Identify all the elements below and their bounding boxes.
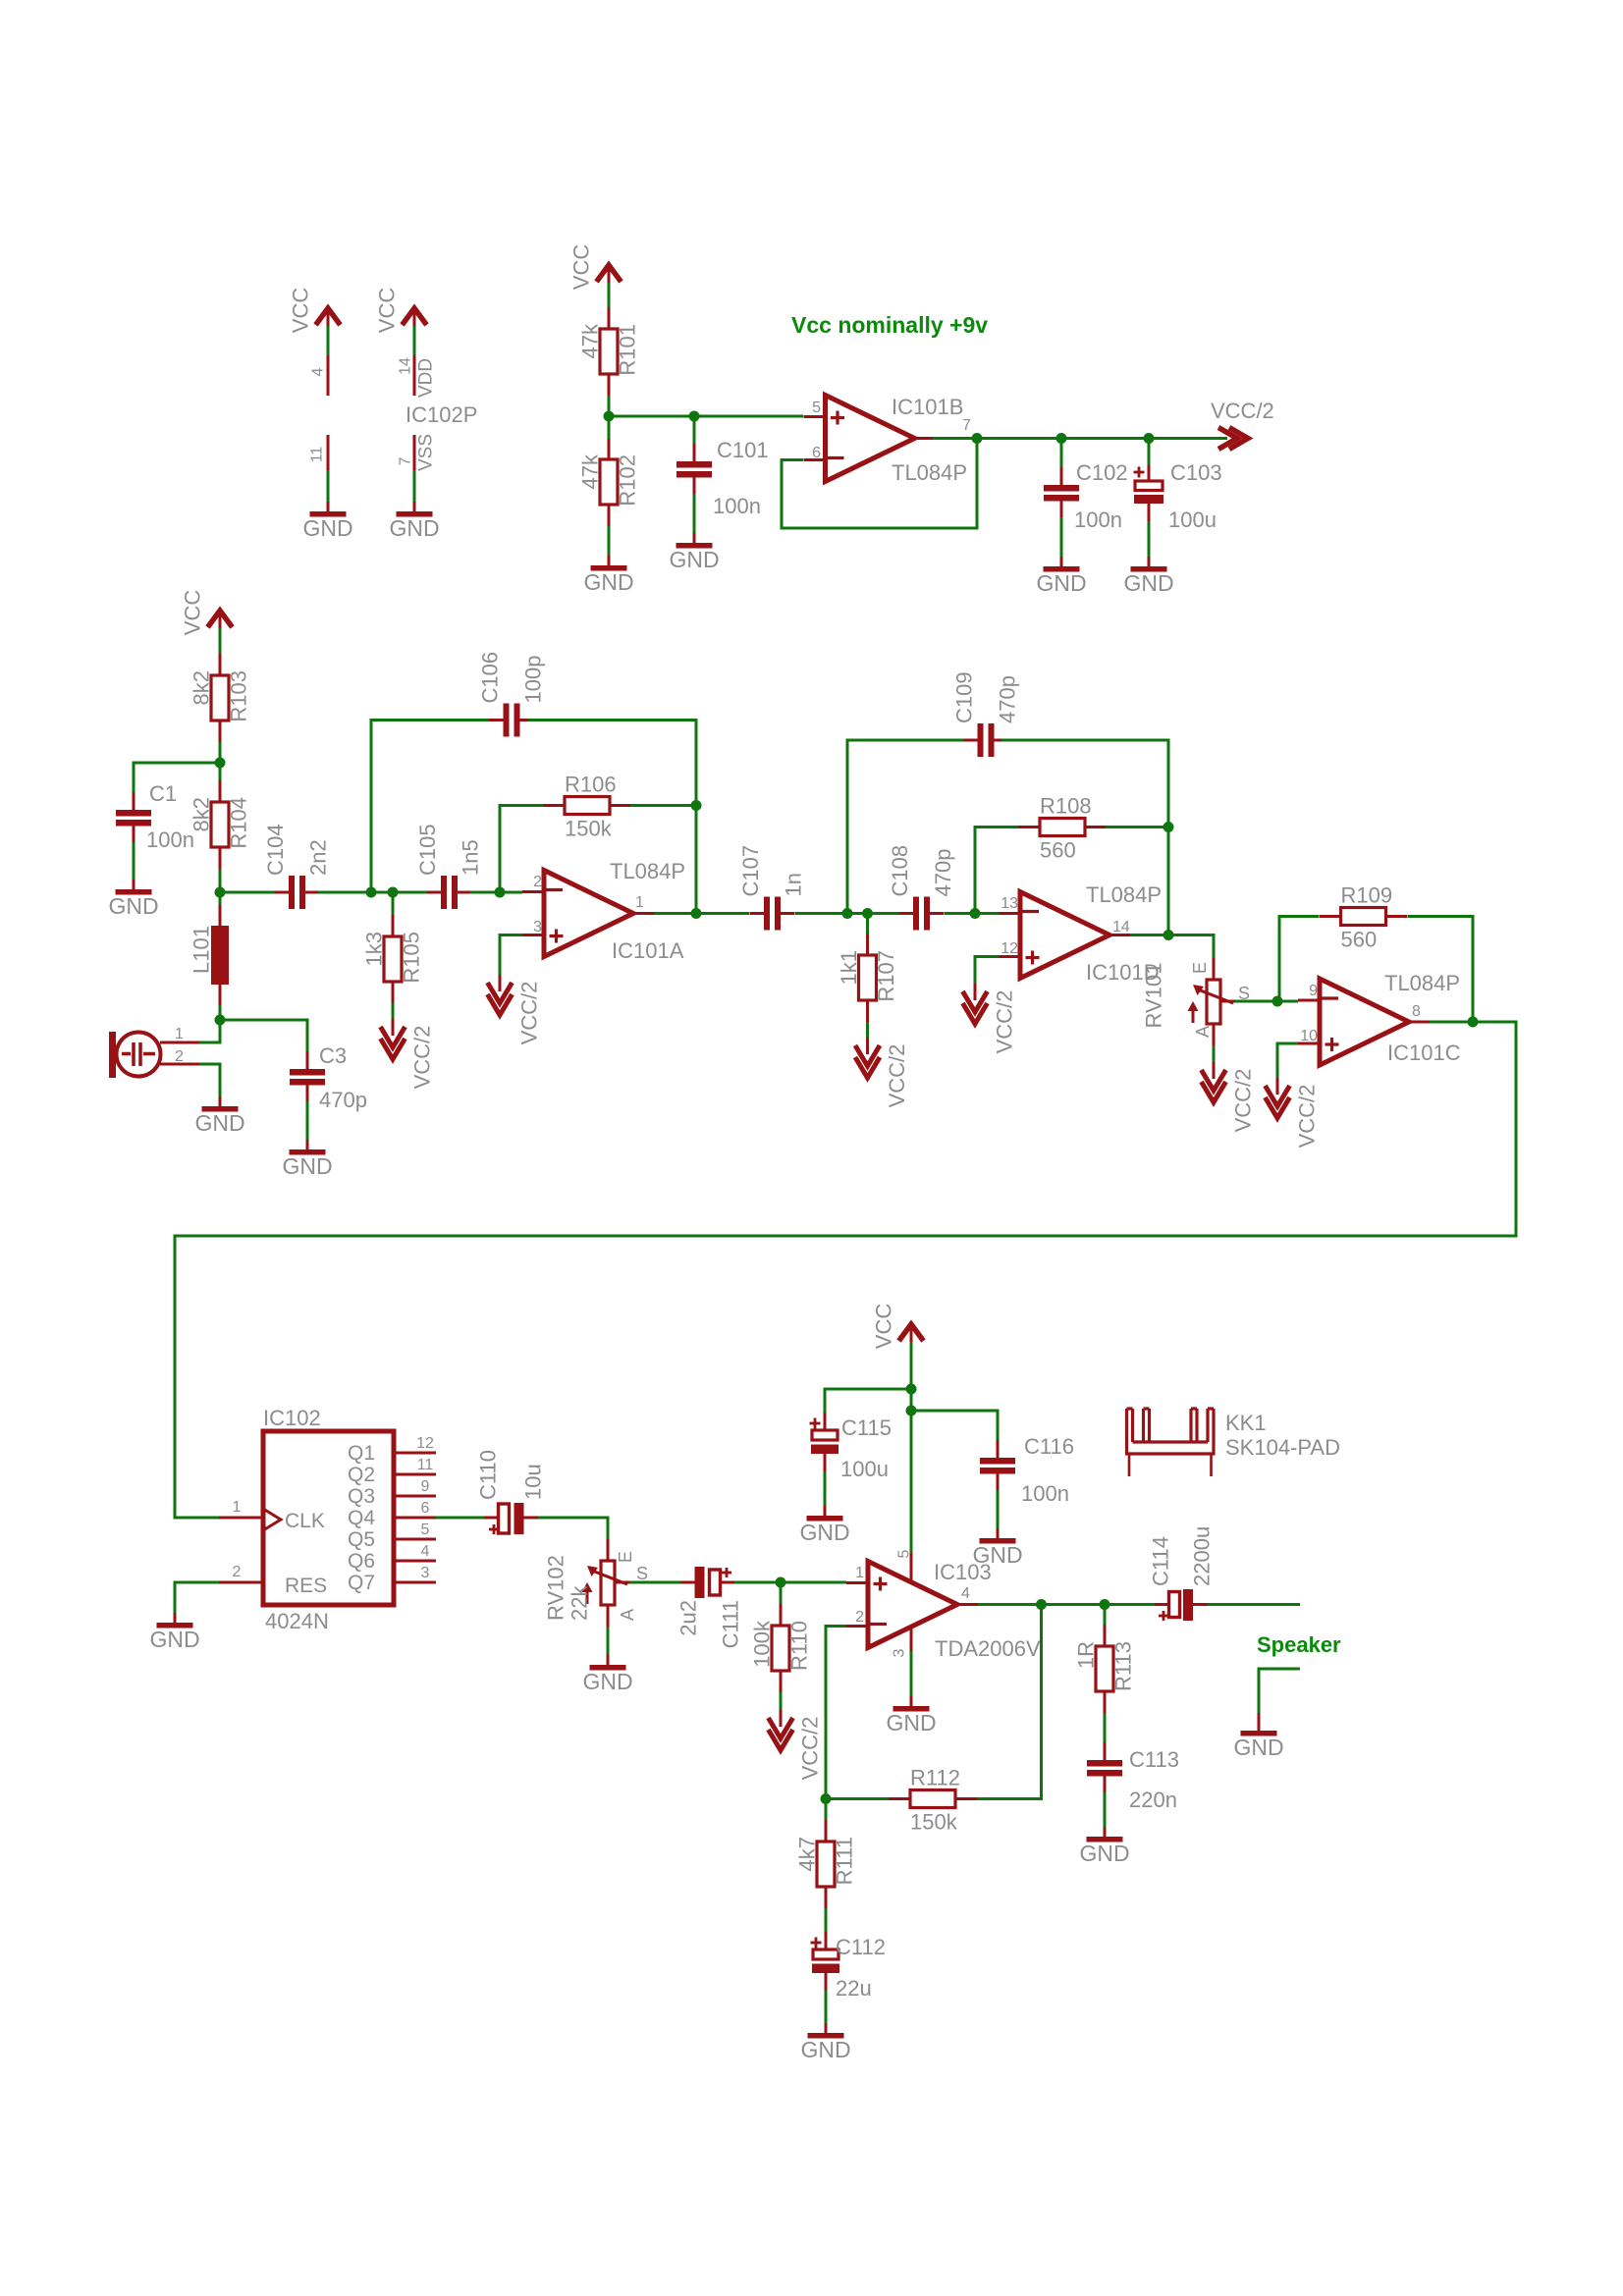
potentiometer RV102 22k	[601, 1561, 615, 1605]
svg-text:C115: C115	[841, 1415, 892, 1440]
svg-text:VCC/2: VCC/2	[885, 1044, 909, 1108]
resistor R105 1k3	[392, 892, 395, 915]
svg-text:VCC/2: VCC/2	[1231, 1069, 1256, 1133]
wire pin3 to VCC/2	[500, 935, 522, 984]
power pin IC101P GND (pin 11)	[327, 435, 330, 472]
pin 3 Q7	[394, 1581, 436, 1584]
op-amp IC103 TDA2006V	[868, 1562, 957, 1648]
svg-text:TL084P: TL084P	[892, 460, 967, 485]
capacitor C106 100p	[371, 721, 495, 893]
capacitor C107 1n	[764, 897, 770, 931]
svg-text:4: 4	[961, 1585, 970, 1602]
svg-text:R111: R111	[833, 1837, 857, 1885]
resistor R111 4k7	[825, 1799, 828, 1821]
svg-text:C113: C113	[1129, 1747, 1179, 1772]
resistor R108 560	[1040, 819, 1085, 836]
svg-text:C108: C108	[888, 845, 912, 897]
svg-text:VCC: VCC	[375, 288, 400, 334]
svg-text:Vcc nominally +9v: Vcc nominally +9v	[791, 312, 988, 338]
svg-text:VSS: VSS	[416, 434, 437, 471]
svg-text:3: 3	[892, 1648, 908, 1657]
svg-text:VCC/2: VCC/2	[410, 1026, 435, 1090]
resistor R106 150k	[565, 797, 610, 815]
capacitor C112 22u polarized	[813, 1949, 839, 1959]
output wire IC101B	[933, 437, 1227, 440]
svg-text:IC103: IC103	[934, 1560, 992, 1584]
svg-text:C111: C111	[719, 1600, 743, 1648]
svg-text:4: 4	[421, 1543, 430, 1560]
svg-text:Speaker: Speaker	[1257, 1632, 1341, 1657]
svg-text:S: S	[636, 1564, 648, 1583]
svg-text:4: 4	[310, 367, 327, 376]
op-amp IC101C TL084P	[1320, 979, 1409, 1065]
wire C114 to speaker stub	[1208, 1603, 1300, 1606]
node junction on IC101A output	[691, 908, 702, 919]
resistor R104 8k2	[219, 763, 222, 781]
resistor R109 560	[1341, 908, 1386, 926]
svg-text:GND: GND	[1079, 1841, 1129, 1866]
svg-text:GND: GND	[302, 515, 352, 541]
output wire IC103	[978, 1603, 1164, 1606]
svg-text:6: 6	[421, 1500, 430, 1517]
svg-text:C107: C107	[738, 845, 763, 897]
svg-text:VCC/2: VCC/2	[1211, 399, 1274, 423]
node junction R106/pin2	[495, 887, 506, 898]
svg-text:4k7: 4k7	[795, 1837, 820, 1871]
svg-text:TDA2006V: TDA2006V	[935, 1636, 1041, 1661]
svg-text:R101: R101	[616, 324, 640, 376]
ground under C1	[133, 880, 135, 889]
capacitor C3 470p	[290, 1069, 325, 1076]
svg-text:2n2: 2n2	[306, 839, 331, 876]
svg-text:GND: GND	[583, 569, 633, 595]
svg-text:C112: C112	[836, 1935, 886, 1959]
svg-text:13: 13	[1001, 895, 1018, 912]
power VCC arrow preamp	[208, 611, 233, 627]
wire RV102 A to ground	[607, 1627, 610, 1657]
output wire IC101A to C107	[654, 912, 749, 915]
node junction pin13/R108	[970, 908, 981, 919]
node junction C103	[1144, 433, 1155, 444]
svg-text:C109: C109	[952, 671, 977, 723]
wire R106 right to junction	[630, 804, 696, 807]
power pin IC102P VDD (pin 14)	[403, 308, 427, 325]
ground under C101	[693, 533, 696, 543]
wire VCC down to IC103 pin5	[910, 1411, 913, 1553]
svg-text:Q6: Q6	[348, 1550, 375, 1573]
svg-text:470p: 470p	[996, 675, 1020, 723]
wire pot A to VCC/2	[1213, 1045, 1216, 1070]
wire pin12 to VCC/2	[975, 957, 999, 992]
svg-text:GND: GND	[886, 1710, 936, 1735]
pin 9 Q3	[394, 1495, 436, 1498]
svg-text:C104: C104	[263, 824, 288, 876]
node junction C101 top	[689, 411, 700, 422]
resistor R101 47k	[600, 329, 618, 374]
capacitor C103 100u polarized	[1148, 439, 1151, 466]
wire C107 to C108	[795, 912, 905, 915]
resistor R110 100k	[780, 1582, 783, 1604]
ground under C3	[306, 1140, 309, 1149]
svg-text:3: 3	[533, 919, 542, 935]
wire C105 to op-amp pin2	[470, 891, 522, 894]
svg-text:22u: 22u	[836, 1976, 872, 2001]
output wire IC101C long run to IC102 CLK	[175, 1022, 1516, 1518]
svg-text:5: 5	[812, 400, 821, 416]
ground IC102P	[413, 502, 416, 511]
resistor R112 150k	[910, 1790, 955, 1808]
svg-text:9: 9	[1309, 983, 1318, 999]
svg-text:1: 1	[635, 894, 644, 911]
svg-text:100u: 100u	[1168, 507, 1217, 532]
svg-text:R105: R105	[400, 932, 424, 984]
ground under IC103 pin3	[910, 1696, 913, 1706]
node junction IC101C output/R109	[1468, 1017, 1479, 1028]
supply arrow VCC/2 under R105	[392, 1019, 395, 1036]
svg-text:C114: C114	[1149, 1536, 1173, 1586]
output wire IC101D to pot	[1130, 935, 1214, 959]
ground under mic	[219, 1096, 222, 1106]
svg-text:6: 6	[812, 445, 821, 461]
pin 1 CLK	[219, 1517, 263, 1520]
svg-text:C103: C103	[1170, 460, 1222, 485]
wire pin10 to VCC/2	[1277, 1043, 1298, 1086]
wire junction to C1	[134, 763, 220, 792]
ground under C112	[825, 2023, 828, 2033]
ground IC101P	[327, 502, 330, 511]
svg-text:5: 5	[421, 1522, 430, 1538]
svg-text:TL084P: TL084P	[610, 859, 685, 883]
wire junction to op-amp pin5	[609, 415, 803, 418]
svg-text:R103: R103	[227, 670, 251, 722]
svg-text:10u: 10u	[521, 1464, 546, 1500]
power pin IC102P VSS (pin 7)	[413, 435, 416, 472]
mic pin 1	[160, 1041, 199, 1044]
wire R106 right junction down to output	[695, 806, 698, 914]
potentiometer RV101	[1207, 980, 1220, 1024]
svg-text:Q2: Q2	[348, 1464, 375, 1486]
svg-text:8k2: 8k2	[189, 797, 214, 831]
svg-text:1: 1	[855, 1565, 864, 1581]
svg-text:VCC/2: VCC/2	[517, 982, 542, 1045]
svg-text:Q3: Q3	[348, 1485, 375, 1508]
svg-text:2: 2	[855, 1609, 864, 1626]
svg-text:TL084P: TL084P	[1384, 971, 1460, 995]
svg-text:GND: GND	[800, 2037, 850, 2062]
IC IC102 4024N box	[263, 1431, 394, 1605]
svg-text:C102: C102	[1076, 460, 1128, 485]
svg-text:R108: R108	[1040, 794, 1092, 819]
capacitor C110 10u polarized	[499, 1504, 510, 1533]
svg-text:VCC: VCC	[181, 590, 205, 636]
svg-text:RV102: RV102	[544, 1555, 568, 1621]
svg-text:2: 2	[533, 874, 542, 890]
svg-text:560: 560	[1341, 928, 1378, 952]
wire C110 to RV102	[538, 1518, 608, 1547]
supply arrow VCC/2 under R110	[780, 1710, 783, 1727]
svg-text:GND: GND	[194, 1110, 244, 1136]
svg-text:VCC: VCC	[872, 1304, 896, 1350]
svg-text:150k: 150k	[910, 1810, 958, 1835]
svg-text:IC101C: IC101C	[1387, 1041, 1461, 1065]
wire RES to ground	[175, 1582, 219, 1615]
resistor R103 8k2	[211, 675, 229, 721]
pin 11 Q2	[394, 1473, 436, 1476]
svg-text:1n5: 1n5	[459, 839, 483, 876]
clock input symbol	[263, 1509, 281, 1530]
pin3 to ground	[910, 1628, 913, 1651]
node feedback junction	[972, 433, 983, 444]
resistor R107 1k1	[866, 914, 869, 934]
feedback wire pin6 to output	[782, 439, 977, 529]
supply arrow VCC/2 under RV101	[1213, 1062, 1216, 1079]
svg-text:GND: GND	[149, 1627, 199, 1652]
svg-text:SK104-PAD: SK104-PAD	[1225, 1435, 1340, 1460]
inductor L101 (filled)	[219, 892, 222, 905]
svg-text:VCC/2: VCC/2	[1295, 1085, 1320, 1148]
svg-text:1k3: 1k3	[362, 932, 387, 966]
svg-text:2u2: 2u2	[676, 1600, 701, 1636]
svg-text:2200u: 2200u	[1190, 1526, 1215, 1586]
wire C111 to IC103 pin1	[734, 1581, 846, 1584]
svg-text:100n: 100n	[1074, 507, 1122, 532]
svg-text:11: 11	[417, 1457, 434, 1473]
svg-text:GND: GND	[669, 547, 719, 572]
svg-text:IC102: IC102	[263, 1406, 321, 1430]
node junction R106 right	[691, 800, 702, 811]
svg-text:Q5: Q5	[348, 1528, 375, 1551]
supply arrow VCC/2 at IC101D pin12	[974, 984, 977, 1000]
power VCC arrow above IC103	[899, 1324, 924, 1341]
node junction R101/R102/C101	[604, 411, 615, 422]
svg-text:7: 7	[962, 417, 971, 434]
power VCC arrow for R101	[597, 265, 622, 282]
svg-text:C1: C1	[149, 781, 177, 806]
svg-text:14: 14	[1112, 919, 1130, 935]
ground under IC102 RES	[174, 1613, 177, 1623]
node junction on IC101D output	[1163, 930, 1174, 940]
svg-text:GND: GND	[1036, 570, 1086, 596]
svg-text:R106: R106	[565, 773, 617, 797]
capacitor C113 220n	[1087, 1760, 1122, 1767]
wire C108 to pin13	[945, 912, 999, 915]
node junction S/R109	[1272, 996, 1283, 1007]
node junction R110	[776, 1577, 786, 1588]
svg-text:7: 7	[398, 456, 414, 465]
wire pin5 stub	[694, 415, 803, 418]
node junction C109 branch	[842, 908, 853, 919]
svg-text:560: 560	[1040, 838, 1076, 863]
svg-text:8k2: 8k2	[189, 670, 214, 705]
svg-text:22k: 22k	[568, 1585, 592, 1621]
wire R108 junction down to output	[1167, 828, 1170, 935]
wire R102 to ground	[608, 526, 611, 558]
ground speaker	[1258, 1721, 1261, 1731]
svg-text:IC101B: IC101B	[892, 395, 963, 419]
node junction R107 branch	[862, 908, 873, 919]
svg-text:Q1: Q1	[348, 1442, 375, 1465]
wire to C116	[911, 1411, 998, 1440]
wire R108 left down to pin13	[975, 828, 1018, 914]
ground under RV102	[607, 1655, 610, 1665]
capacitor C102 100n	[1060, 439, 1063, 470]
wire to C115	[825, 1389, 911, 1413]
node junction R105 branch	[388, 887, 399, 898]
capacitor C114 2200u polarized	[1169, 1592, 1180, 1618]
wire R109 left down to S junction	[1279, 917, 1319, 1002]
svg-text:TL084P: TL084P	[1086, 882, 1162, 907]
power pin IC101P VCC (pin 4)	[316, 308, 341, 325]
speaker ground bracket	[1259, 1669, 1300, 1713]
ground under C116	[997, 1528, 1000, 1538]
svg-text:A: A	[1193, 1026, 1213, 1038]
svg-text:RV101: RV101	[1142, 963, 1166, 1029]
svg-text:100n: 100n	[146, 828, 194, 852]
net arrow VCC/2 output	[1218, 428, 1237, 450]
svg-text:C101: C101	[717, 438, 769, 462]
wire R112 right up to output	[977, 1605, 1042, 1799]
svg-text:4024N: 4024N	[265, 1609, 329, 1633]
node junction R103/R104/C1	[219, 742, 222, 763]
svg-text:GND: GND	[799, 1520, 849, 1545]
capacitor C111 2u2 polarized	[695, 1567, 705, 1598]
op-amp IC101A TL084P	[544, 871, 633, 957]
svg-text:A: A	[618, 1609, 637, 1621]
svg-text:E: E	[1190, 962, 1210, 974]
svg-text:R107: R107	[874, 950, 898, 1002]
svg-text:VCC/2: VCC/2	[993, 990, 1017, 1054]
svg-text:GND: GND	[108, 893, 158, 919]
capacitor C105 1n5	[441, 876, 447, 909]
heatsink KK1 SK104-PAD	[1127, 1407, 1133, 1410]
svg-text:220n: 220n	[1129, 1788, 1177, 1812]
svg-text:5: 5	[896, 1549, 913, 1558]
svg-text:R104: R104	[227, 797, 251, 849]
capacitor C115 100u polarized	[812, 1430, 838, 1440]
svg-text:2: 2	[175, 1048, 184, 1065]
pin 2 RES	[219, 1581, 263, 1584]
svg-text:100p: 100p	[521, 656, 546, 704]
svg-text:11: 11	[309, 447, 326, 463]
svg-text:1: 1	[175, 1026, 184, 1042]
node junction mic/L101/C3	[215, 1015, 226, 1026]
capacitor C1 100n	[116, 810, 151, 817]
capacitor C116 100n	[980, 1458, 1015, 1465]
svg-text:8: 8	[1412, 1003, 1421, 1020]
svg-text:RES: RES	[285, 1575, 327, 1597]
svg-text:VCC: VCC	[569, 244, 594, 291]
svg-text:R102: R102	[616, 454, 640, 507]
pin 6 Q4	[394, 1517, 436, 1520]
svg-text:3: 3	[421, 1565, 430, 1581]
node junction C102	[1056, 433, 1067, 444]
supply arrow VCC/2 at IC101C pin10	[1276, 1078, 1279, 1095]
svg-text:L101: L101	[189, 926, 214, 974]
svg-text:1n: 1n	[782, 873, 806, 896]
wire R109 right down to output	[1408, 917, 1473, 1023]
svg-text:GND: GND	[282, 1153, 332, 1179]
capacitor C101 100n	[693, 416, 696, 444]
pin 4 Q6	[394, 1560, 436, 1563]
svg-text:C110: C110	[476, 1450, 501, 1500]
ground under C113	[1104, 1827, 1107, 1837]
svg-text:12: 12	[1001, 940, 1018, 957]
svg-text:R112: R112	[910, 1766, 960, 1790]
svg-text:100k: 100k	[750, 1620, 775, 1668]
svg-text:GND: GND	[389, 515, 439, 541]
svg-text:R109: R109	[1341, 883, 1393, 908]
node junction C106 branch	[366, 887, 377, 898]
wire R101 to junction	[608, 396, 611, 416]
svg-text:GND: GND	[1123, 570, 1173, 596]
wire C104 to junctions	[318, 891, 443, 894]
ground under C115	[824, 1506, 827, 1516]
svg-text:KK1: KK1	[1225, 1411, 1267, 1435]
supply arrow VCC/2 at IC101A pin3	[499, 975, 502, 991]
svg-text:150k: 150k	[565, 817, 613, 841]
svg-text:CLK: CLK	[285, 1510, 325, 1532]
svg-text:100u: 100u	[840, 1457, 889, 1481]
svg-text:VCC/2: VCC/2	[798, 1717, 823, 1781]
svg-text:Q4: Q4	[348, 1507, 375, 1529]
svg-text:47k: 47k	[578, 454, 603, 489]
svg-text:GND: GND	[582, 1669, 632, 1694]
svg-text:2: 2	[233, 1564, 242, 1580]
svg-text:IC102P: IC102P	[406, 402, 477, 427]
svg-text:C3: C3	[319, 1043, 347, 1068]
svg-text:VDD: VDD	[416, 358, 437, 398]
capacitor C104 2n2	[289, 876, 295, 909]
svg-text:R110: R110	[787, 1621, 812, 1671]
node junction C116 branch	[906, 1406, 917, 1416]
node junction R112 feedback on output	[1036, 1599, 1047, 1610]
pin 5 Q5	[394, 1538, 436, 1541]
ground under R102	[608, 556, 611, 565]
node junction C115 branch	[906, 1384, 917, 1395]
svg-text:Q7: Q7	[348, 1572, 375, 1594]
svg-text:R113: R113	[1111, 1641, 1136, 1691]
ground under C103	[1148, 557, 1151, 566]
resistor R113 1R	[1104, 1605, 1107, 1626]
svg-text:470p: 470p	[319, 1088, 367, 1112]
wire R112 left	[826, 1797, 889, 1800]
pin 12 Q1	[394, 1452, 436, 1455]
svg-text:470p: 470p	[931, 849, 955, 897]
wire R108 right to junction	[1106, 826, 1168, 828]
resistor R102 47k	[600, 459, 618, 505]
svg-text:E: E	[616, 1551, 635, 1563]
svg-text:100n: 100n	[1021, 1481, 1069, 1506]
wire Q4 to C110	[436, 1517, 486, 1520]
capacitor C108 470p	[913, 897, 919, 931]
wire pin2 down to R112 junction	[826, 1627, 846, 1799]
main rail wire to C104	[220, 891, 276, 894]
svg-text:VCC: VCC	[289, 288, 313, 334]
svg-text:14: 14	[398, 357, 414, 375]
svg-text:47k: 47k	[578, 323, 603, 358]
svg-text:IC101A: IC101A	[612, 938, 684, 963]
svg-text:100n: 100n	[713, 494, 761, 518]
node junction R113 branch	[1100, 1599, 1110, 1610]
microphone MIC1 symbol	[109, 1032, 116, 1078]
svg-text:GND: GND	[1233, 1735, 1283, 1760]
op-amp IC101B TL084P	[826, 396, 915, 482]
node junction main rail left	[215, 887, 226, 898]
svg-text:12: 12	[416, 1435, 434, 1452]
wire junction to C3	[220, 1020, 307, 1051]
svg-text:9: 9	[421, 1478, 430, 1495]
wire RV102 S to C111	[629, 1581, 681, 1584]
